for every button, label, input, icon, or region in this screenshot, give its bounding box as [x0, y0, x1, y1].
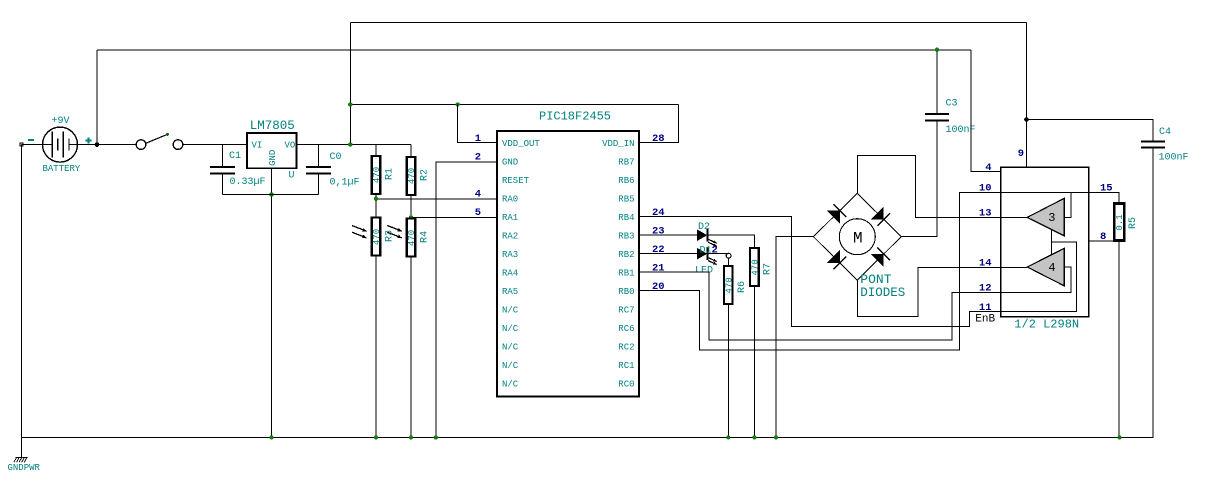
bridge diode top-right	[871, 207, 884, 220]
bridge diode bottom-left	[827, 250, 840, 263]
svg-text:N/C: N/C	[502, 380, 519, 390]
battery B1 minus wire	[22, 144, 43, 146]
svg-text:LED: LED	[695, 266, 713, 277]
svg-text:R4: R4	[419, 231, 430, 243]
svg-text:RC1: RC1	[618, 361, 634, 371]
svg-text:470: 470	[407, 168, 417, 184]
bridge diode top-left	[827, 211, 840, 224]
wire top +5V horizontal	[350, 22, 1026, 24]
svg-text:0,1µF: 0,1µF	[330, 178, 360, 189]
wire rail to ground symbol	[21, 437, 23, 457]
photoresistor R4 470	[407, 219, 416, 257]
battery B1 +9V	[43, 127, 78, 162]
resistor R5 0.1	[1114, 204, 1124, 241]
junction R7/rail	[752, 435, 756, 439]
junction PIC GND / rail	[434, 435, 438, 439]
wire PIC pin28 VDD_IN	[639, 105, 679, 143]
svg-text:PIC18F2455: PIC18F2455	[539, 110, 611, 124]
wire R3 bottom to rail	[375, 256, 377, 438]
svg-text:VO: VO	[285, 141, 296, 151]
wire L298 pin8 to R5 bottom	[1089, 240, 1119, 242]
wire battery plus to switch	[78, 144, 137, 146]
svg-text:13: 13	[979, 208, 992, 220]
wire capacitor bottom rail	[223, 194, 319, 196]
svg-text:VDD_OUT: VDD_OUT	[502, 139, 540, 149]
wire R4 bottom to rail	[410, 257, 412, 438]
junction left-vertex/rail	[774, 435, 778, 439]
svg-text:N/C: N/C	[502, 306, 519, 316]
wire R2 top leg	[410, 145, 412, 157]
svg-text:470: 470	[725, 277, 735, 293]
wire top +9V horizontal	[97, 49, 971, 51]
wire C0 bottom leg	[318, 174, 320, 195]
svg-text:RB5: RB5	[618, 195, 634, 205]
svg-text:BATTERY: BATTERY	[43, 164, 81, 174]
junction +5V riser/branch	[348, 102, 352, 106]
svg-text:C1: C1	[229, 151, 241, 162]
svg-text:RB1: RB1	[618, 269, 634, 279]
wire C1 top leg	[222, 145, 224, 167]
wire regulator GND leg	[271, 168, 273, 437]
svg-text:PONT: PONT	[860, 272, 891, 287]
svg-text:U: U	[289, 171, 295, 182]
svg-text:RA5: RA5	[502, 287, 518, 297]
svg-text:D2: D2	[698, 222, 710, 233]
wire D1 cathode to R6	[707, 254, 728, 266]
motor M	[839, 219, 875, 255]
svg-text:GNDPWR: GNDPWR	[8, 463, 41, 473]
wire +5V riser from LM7805 output	[349, 23, 351, 145]
svg-text:R3: R3	[384, 230, 395, 242]
wire C4 bottom to rail	[1152, 148, 1154, 438]
svg-text:470: 470	[407, 230, 417, 246]
wire R5 bottom to rail	[1118, 241, 1120, 438]
wire bridge right vertex to C3	[901, 120, 937, 236]
svg-text:GND: GND	[268, 150, 278, 166]
internal wire to amp3 output	[1064, 193, 1071, 218]
svg-text:R7: R7	[763, 263, 774, 275]
wire C1 bottom leg	[222, 174, 224, 195]
wire RB2 to D1	[639, 253, 697, 255]
svg-text:RB0: RB0	[618, 287, 634, 297]
svg-text:C0: C0	[330, 152, 342, 163]
svg-text:R6: R6	[737, 281, 748, 293]
svg-text:RA1: RA1	[502, 213, 518, 223]
internal wire to pin8/pin11	[1001, 242, 1077, 311]
wire +9V to L298 pin4	[971, 50, 1001, 172]
svg-text:RA4: RA4	[502, 269, 518, 279]
svg-text:3: 3	[1048, 211, 1055, 225]
svg-text:N/C: N/C	[502, 361, 519, 371]
ic U3 half L298N box	[1001, 167, 1089, 316]
resistor R1 470	[372, 156, 381, 194]
capacitor C0	[306, 166, 331, 168]
svg-text:0.33µF: 0.33µF	[230, 177, 266, 188]
junction R6/rail	[726, 435, 730, 439]
capacitor C4	[1141, 141, 1165, 143]
wire RB3 to D2	[639, 234, 697, 236]
capacitor C3	[925, 113, 949, 115]
svg-text:RB7: RB7	[618, 158, 634, 168]
ground GNDPWR symbol	[16, 457, 28, 459]
wire switch to regulator input	[183, 144, 247, 146]
svg-text:RC7: RC7	[618, 306, 634, 316]
resistor R2 470	[407, 157, 416, 195]
diode bridge diamond	[813, 193, 901, 280]
wire C0 top leg	[318, 145, 320, 167]
amplifier 4 triangle	[1027, 248, 1064, 286]
svg-text:4: 4	[1048, 261, 1055, 275]
wire R6 bottom to rail	[727, 304, 729, 437]
ic U2 PIC18F2455 box	[497, 131, 639, 397]
battery plus sign	[86, 140, 92, 142]
svg-text:C3: C3	[946, 99, 958, 110]
svg-text:RB4: RB4	[618, 213, 634, 223]
svg-text:N/C: N/C	[502, 343, 519, 353]
svg-text:EnB: EnB	[975, 314, 995, 326]
battery minus sign	[28, 139, 34, 141]
wire regulator output +5V	[297, 144, 411, 146]
svg-text:4: 4	[475, 188, 481, 200]
svg-text:VDD_IN: VDD_IN	[602, 139, 634, 149]
svg-text:RA0: RA0	[502, 195, 518, 205]
internal wire pin14 to amp4 apex	[1001, 266, 1027, 268]
junction R5/rail	[1118, 435, 1122, 439]
svg-text:12: 12	[979, 283, 992, 295]
svg-text:D1: D1	[700, 246, 712, 257]
junction battery plus / +9V riser	[95, 142, 100, 147]
junction RA0	[374, 197, 378, 201]
svg-text:LM7805: LM7805	[250, 119, 295, 133]
amplifier 3 triangle	[1027, 198, 1064, 236]
svg-text:GND: GND	[502, 158, 518, 168]
junction +5V branch / pin1 drop	[456, 102, 460, 106]
resistor R7 470	[750, 248, 759, 286]
D1 pin end circle	[726, 253, 731, 258]
wire PIC pin5 RA1	[411, 216, 497, 218]
wire RB1 to L298 pin12	[639, 272, 1001, 340]
regulator U LM7805 box	[247, 133, 297, 168]
wire PIC pin1 VDD_OUT	[458, 105, 497, 143]
wire bridge top vertex to L298 pin13	[857, 156, 1001, 218]
internal wire pin13 to amp3 apex	[1001, 216, 1027, 218]
wire D2 cathode to R7	[707, 235, 754, 248]
svg-text:0.1: 0.1	[1115, 214, 1125, 230]
svg-text:470: 470	[372, 229, 382, 245]
junction RA1	[409, 215, 413, 219]
svg-text:9: 9	[1018, 148, 1024, 160]
junction C3/+9V wire	[935, 48, 939, 52]
svg-text:R1: R1	[384, 168, 395, 180]
svg-text:RC6: RC6	[618, 324, 634, 334]
junction +5V output / riser	[348, 142, 352, 146]
switch SW1	[136, 140, 146, 150]
resistor R6 470	[724, 266, 733, 304]
svg-text:10: 10	[979, 183, 992, 195]
wire R1 top leg	[375, 145, 377, 156]
wire L298 pin9 from top	[1026, 23, 1028, 168]
svg-text:28: 28	[652, 133, 665, 145]
wire +9V riser	[96, 50, 98, 145]
svg-text:1: 1	[475, 133, 481, 145]
svg-text:1/2 L298N: 1/2 L298N	[1014, 318, 1079, 332]
internal wire pin10-pin15	[1001, 192, 1089, 194]
wire PIC pin4 RA0	[376, 198, 497, 200]
svg-text:470: 470	[372, 167, 382, 183]
led D1	[697, 248, 707, 259]
svg-text:11: 11	[979, 302, 992, 314]
wire RB0 to L298 pin10	[639, 193, 1001, 350]
svg-text:RC2: RC2	[618, 343, 634, 353]
internal wire pin12 to amp4 output	[1001, 267, 1071, 293]
svg-text:RC0: RC0	[618, 380, 634, 390]
svg-text:+9V: +9V	[52, 116, 70, 127]
wire bridge left vertex to rail	[776, 237, 813, 438]
wire RA1 node R2-R4	[410, 195, 412, 219]
svg-text:2: 2	[712, 245, 718, 257]
svg-text:RB2: RB2	[618, 250, 634, 260]
ground rail wire	[22, 436, 1153, 438]
svg-text:N/C: N/C	[502, 324, 519, 334]
svg-text:RB6: RB6	[618, 176, 634, 186]
battery left end square	[20, 143, 23, 146]
svg-text:C4: C4	[1159, 127, 1171, 138]
svg-text:R2: R2	[419, 169, 430, 181]
wire PIC pin2 GND	[436, 162, 497, 437]
wire L298 pin15 to R5	[1089, 193, 1119, 204]
internal wire amp3 to amp4	[1051, 230, 1053, 255]
wire bridge bottom vertex to L298 pin14	[857, 267, 1001, 316]
svg-text:100nF: 100nF	[1159, 153, 1189, 164]
junction GND leg / ground rail	[270, 435, 274, 439]
junction pin9/C4 branch	[1024, 117, 1029, 122]
svg-text:RA2: RA2	[502, 232, 518, 242]
wire RA0 node R1-R3	[375, 194, 377, 218]
junction GND leg / capacitor rail	[269, 192, 273, 196]
svg-text:5: 5	[475, 207, 481, 219]
wire C3 top leg	[936, 50, 938, 114]
svg-text:VI: VI	[252, 141, 263, 151]
wire branch to C4	[1027, 120, 1154, 142]
R3 light arrows	[352, 226, 367, 232]
wire battery minus down	[21, 145, 23, 438]
svg-text:14: 14	[979, 258, 992, 270]
junction R4/rail	[409, 435, 413, 439]
svg-text:RB3: RB3	[618, 232, 634, 242]
capacitor C1	[210, 166, 235, 168]
svg-text:DIODES: DIODES	[860, 286, 905, 300]
svg-text:4: 4	[985, 162, 991, 174]
svg-text:RESET: RESET	[502, 176, 530, 186]
photoresistor R3 470	[372, 218, 381, 256]
svg-text:R5: R5	[1128, 217, 1139, 229]
svg-text:470: 470	[751, 259, 761, 275]
wire R7 bottom to rail	[753, 286, 755, 437]
junction R3/rail	[374, 435, 378, 439]
svg-text:2: 2	[475, 151, 481, 163]
led D2	[697, 230, 707, 241]
svg-text:M: M	[853, 230, 863, 248]
R4 light arrows	[387, 226, 402, 232]
svg-text:RA3: RA3	[502, 250, 518, 260]
wire RB4 to EnB	[639, 217, 1001, 327]
bridge diode bottom-right	[871, 254, 884, 267]
wire +5V branch to PIC VDD	[350, 104, 678, 106]
